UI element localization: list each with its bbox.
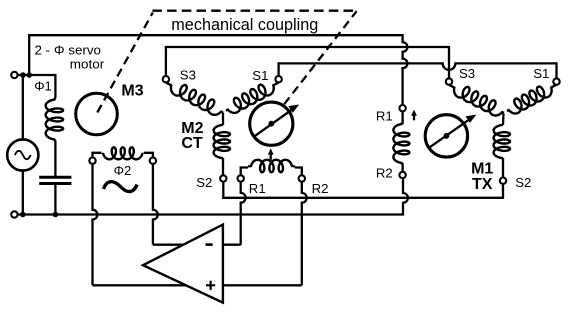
svg-text:S1: S1 bbox=[533, 66, 549, 81]
svg-text:2 - Φ servo: 2 - Φ servo bbox=[35, 43, 102, 58]
svg-text:motor: motor bbox=[70, 56, 105, 71]
svg-text:S2: S2 bbox=[515, 175, 531, 190]
svg-text:CT: CT bbox=[181, 135, 203, 152]
svg-text:S1: S1 bbox=[252, 68, 268, 83]
svg-text:R1: R1 bbox=[249, 181, 266, 196]
svg-text:S3: S3 bbox=[459, 66, 475, 81]
svg-text:Φ1: Φ1 bbox=[34, 78, 52, 93]
svg-text:S2: S2 bbox=[196, 175, 212, 190]
svg-text:Φ2: Φ2 bbox=[114, 163, 132, 178]
svg-text:R2: R2 bbox=[312, 181, 329, 196]
svg-text:S3: S3 bbox=[180, 67, 196, 82]
svg-text:R1: R1 bbox=[376, 108, 393, 123]
svg-text:R2: R2 bbox=[376, 165, 393, 180]
svg-text:mechanical coupling: mechanical coupling bbox=[171, 16, 318, 34]
svg-text:TX: TX bbox=[472, 176, 493, 193]
svg-text:M3: M3 bbox=[121, 83, 143, 100]
